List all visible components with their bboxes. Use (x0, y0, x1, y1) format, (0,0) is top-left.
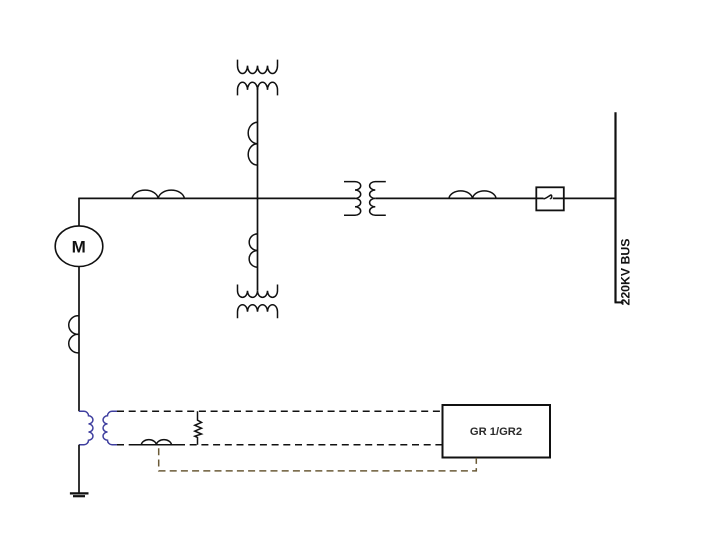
svg-text:220KV BUS: 220KV BUS (619, 239, 633, 306)
motor M (55, 226, 103, 267)
wire dashed secondary bottom to GR box (178, 444, 443, 446)
wire center vertical branch (257, 88, 259, 291)
transformer T4 secondary winding (blue) (103, 411, 117, 444)
wire solid under CT (131, 444, 178, 446)
ground (70, 493, 89, 496)
breaker contact glyph (544, 195, 552, 199)
transformer T1 bottom winding (238, 82, 278, 95)
wire dashed CT secondary to GR box (brown) (159, 448, 477, 471)
wire main horizontal middle segment (375, 197, 543, 199)
CT pair on main line left (132, 190, 184, 198)
wire main horizontal left segment (79, 197, 355, 199)
CT on motor lead (69, 316, 79, 353)
CT pair on main line right (449, 191, 496, 198)
transformer T4 primary winding (blue) (79, 411, 93, 444)
transformer T3 bottom winding (238, 305, 278, 318)
bus 220KV (614, 112, 616, 302)
wire motor to transformer primary (78, 267, 80, 412)
svg-text:M: M (72, 238, 86, 257)
transformer T2 left winding (344, 182, 361, 216)
wire dashed secondary bottom left (117, 444, 134, 446)
svg-text:GR 1/GR2: GR 1/GR2 (470, 426, 522, 438)
wire drop to motor (78, 198, 80, 226)
bus end foot (615, 301, 624, 303)
wire primary to ground (78, 445, 80, 493)
transformer T2 right winding (370, 182, 386, 216)
breaker box CB1 (536, 187, 564, 210)
relay box GR1/GR2 (443, 405, 551, 458)
resistor R1 (195, 411, 202, 444)
CT on secondary lead (141, 440, 171, 445)
CT upper on center branch (248, 122, 257, 165)
transformer T1 top winding (238, 60, 278, 74)
transformer T3 top winding (238, 285, 278, 298)
wire main horizontal right segment (553, 197, 616, 199)
wire dashed secondary top to GR box (117, 410, 443, 412)
CT lower on center branch (249, 234, 257, 267)
